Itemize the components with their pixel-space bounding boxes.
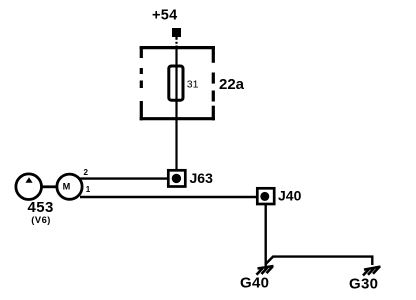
svg-text:(V6): (V6) [31, 215, 51, 225]
svg-text:J40: J40 [278, 188, 302, 204]
svg-text:G30: G30 [349, 276, 378, 293]
svg-text:31: 31 [187, 79, 199, 91]
svg-text:G40: G40 [240, 275, 269, 292]
svg-text:M: M [63, 181, 71, 191]
svg-text:453: 453 [28, 199, 54, 216]
svg-text:+54: +54 [152, 8, 178, 24]
svg-text:2: 2 [84, 168, 89, 177]
svg-text:J63: J63 [190, 170, 214, 186]
svg-text:1: 1 [86, 185, 91, 194]
svg-text:22a: 22a [219, 76, 245, 93]
